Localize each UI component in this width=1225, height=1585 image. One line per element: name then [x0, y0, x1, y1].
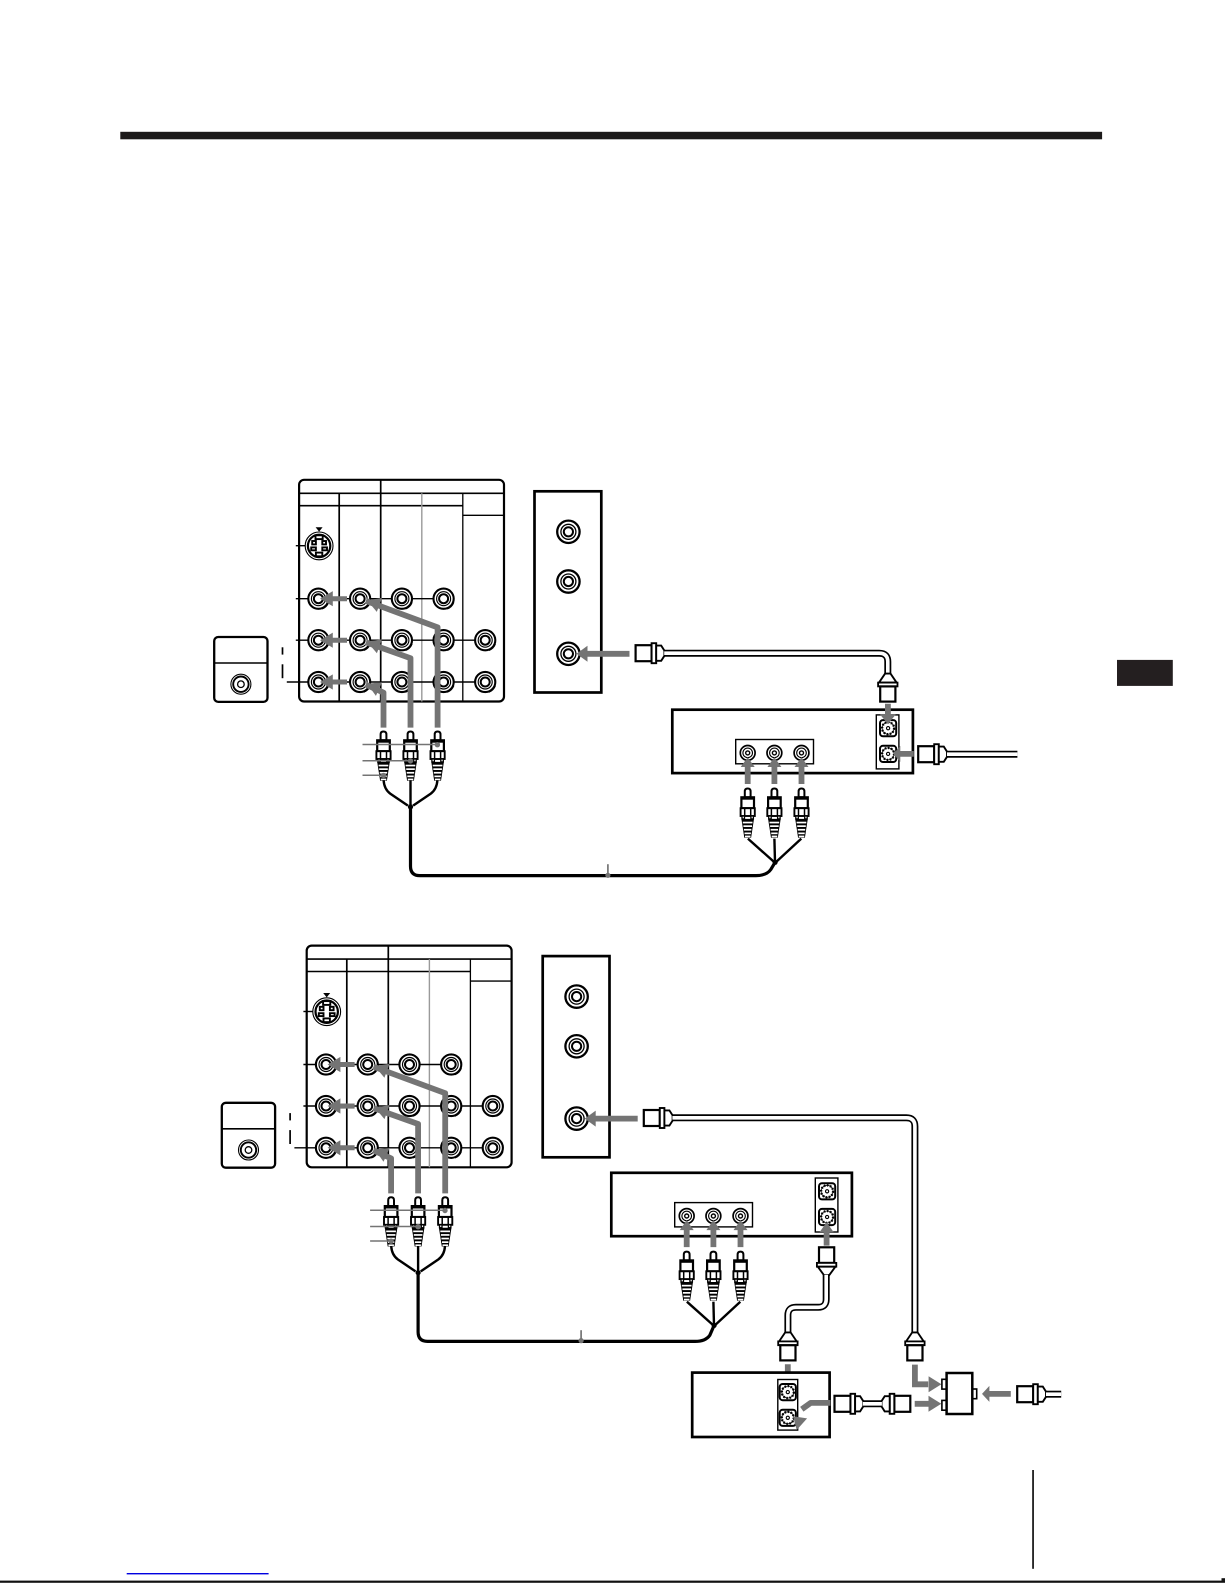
- gray arrow from CATV into splitter (hookup 2): [982, 1386, 1011, 1402]
- gray arrow into cable box RF IN (hookup 1): [880, 704, 896, 725]
- gray elbow arrow into splitter (hookup 2): [915, 1365, 942, 1393]
- TV rear panel (hookup 2): [307, 946, 512, 1168]
- chapter thumb tab: [1117, 660, 1173, 686]
- VCR rear panel (hookup 2): [543, 956, 610, 1157]
- cable box RF connectors (hookup 2): [819, 1183, 835, 1225]
- cable box A/V output jacks (hookup 2): [679, 1209, 748, 1224]
- RF cable from VCR to cable box (hookup 1): [664, 653, 888, 675]
- hyperlink underline: [127, 1573, 269, 1574]
- incoming CATV cable plug (hookup 1): [918, 744, 947, 764]
- RCA jack field on TV panel (hookup 1): [308, 589, 495, 693]
- incoming CATV cable plug (hookup 2): [1017, 1384, 1046, 1404]
- gray arrow into VCR VHF/UHF input (hookup 1): [577, 646, 630, 662]
- gray arrow from jumper into splitter (hookup 2): [915, 1396, 942, 1412]
- page title bar: [120, 132, 1102, 140]
- gray bent arrow into converter OUT (hookup 2): [793, 1403, 830, 1430]
- gray hookup path lines to VIDEO IN jacks (hookup 1): [366, 601, 438, 728]
- incoming CATV cable (hookup 1): [947, 751, 1017, 758]
- cable box A/V output jacks (hookup 1): [740, 746, 809, 761]
- antenna cable plug at VCR (hookup 1): [636, 643, 665, 663]
- A/V cable plugs below cable box (hookup 2): [680, 1252, 748, 1328]
- RF plug into converter (hookup 2): [778, 1332, 797, 1360]
- plug label leader lines (hookup 1): [363, 742, 441, 778]
- RF cable from cable box to converter (hookup 2): [788, 1275, 826, 1334]
- dashed alternate-connection line (hookup 1): [282, 647, 284, 678]
- gray arrow into cable box RF OUT (hookup 2): [820, 1222, 834, 1245]
- gray arrow into converter IN (hookup 2): [780, 1364, 796, 1389]
- cable box RF connectors (hookup 1): [880, 720, 896, 762]
- VCR jacks (hookup 2): [565, 985, 587, 1129]
- short coaxial jumper cable (hookup 2): [835, 1394, 911, 1414]
- VCR jacks (hookup 1): [557, 521, 579, 665]
- cable box rear panel (hookup 1): [672, 710, 913, 773]
- A/V cable plugs below TV panel (hookup 2): [384, 1197, 452, 1275]
- S VIDEO IN jack (hookup 2): [313, 993, 341, 1026]
- RCA jack field on TV panel (hookup 2): [316, 1054, 503, 1158]
- RF plug feeding splitter (hookup 2): [905, 1332, 924, 1360]
- cable label pointer (hookup 1): [605, 864, 610, 878]
- gray arrow into VCR VHF/UHF input (hookup 2): [585, 1111, 638, 1127]
- cable wall outlet box (hookup 2): [222, 1103, 275, 1168]
- jack row connecting lines (hookup 2): [294, 1012, 492, 1148]
- RF plug into cable box top connector (hookup 1): [878, 674, 897, 702]
- plug label leader lines (hookup 2): [370, 1208, 448, 1244]
- page bottom rule: [0, 1578, 1225, 1583]
- incoming CATV cable (hookup 2): [1046, 1391, 1061, 1398]
- jack row connecting lines (hookup 1): [287, 546, 485, 682]
- cable label pointer (hookup 2): [579, 1330, 584, 1343]
- antenna cable plug at VCR (hookup 2): [644, 1108, 673, 1128]
- gray hookup path lines to VIDEO IN jacks (hookup 2): [373, 1067, 445, 1194]
- gray arrows into cable box A/V jacks (hookup 2): [680, 1220, 748, 1247]
- cable wall outlet box (hookup 1): [214, 637, 267, 702]
- TV rear panel (hookup 1): [299, 480, 504, 702]
- two-way signal splitter (hookup 2): [942, 1373, 977, 1414]
- converter RF connectors (hookup 2): [780, 1384, 796, 1426]
- A/V connecting cable run (hookup 1): [411, 807, 776, 876]
- gray arrow into cable box CATV IN (hookup 1): [893, 746, 914, 762]
- cable box rear panel (hookup 2): [611, 1173, 852, 1236]
- dashed alternate-connection line (hookup 2): [289, 1113, 291, 1144]
- A/V cable plugs below cable box (hookup 1): [741, 789, 809, 865]
- RF plug below cable box OUT connector (hookup 2): [817, 1247, 836, 1275]
- A/V connecting cable run (hookup 2): [418, 1273, 714, 1342]
- gray arrows into cable box A/V jacks (hookup 1): [741, 757, 809, 784]
- converter/descrambler box (hookup 2): [692, 1373, 829, 1437]
- gray connection arrows into jacks (hookup 1): [320, 591, 382, 696]
- A/V cable plugs below TV panel (hookup 1): [376, 732, 444, 810]
- S VIDEO IN jack (hookup 1): [305, 527, 333, 560]
- page footer column rule: [1032, 1470, 1034, 1569]
- gray connection arrows into jacks (hookup 2): [328, 1057, 390, 1162]
- RF cable from VCR toward splitter (hookup 2): [672, 1118, 915, 1334]
- VCR rear panel (hookup 1): [535, 491, 602, 692]
